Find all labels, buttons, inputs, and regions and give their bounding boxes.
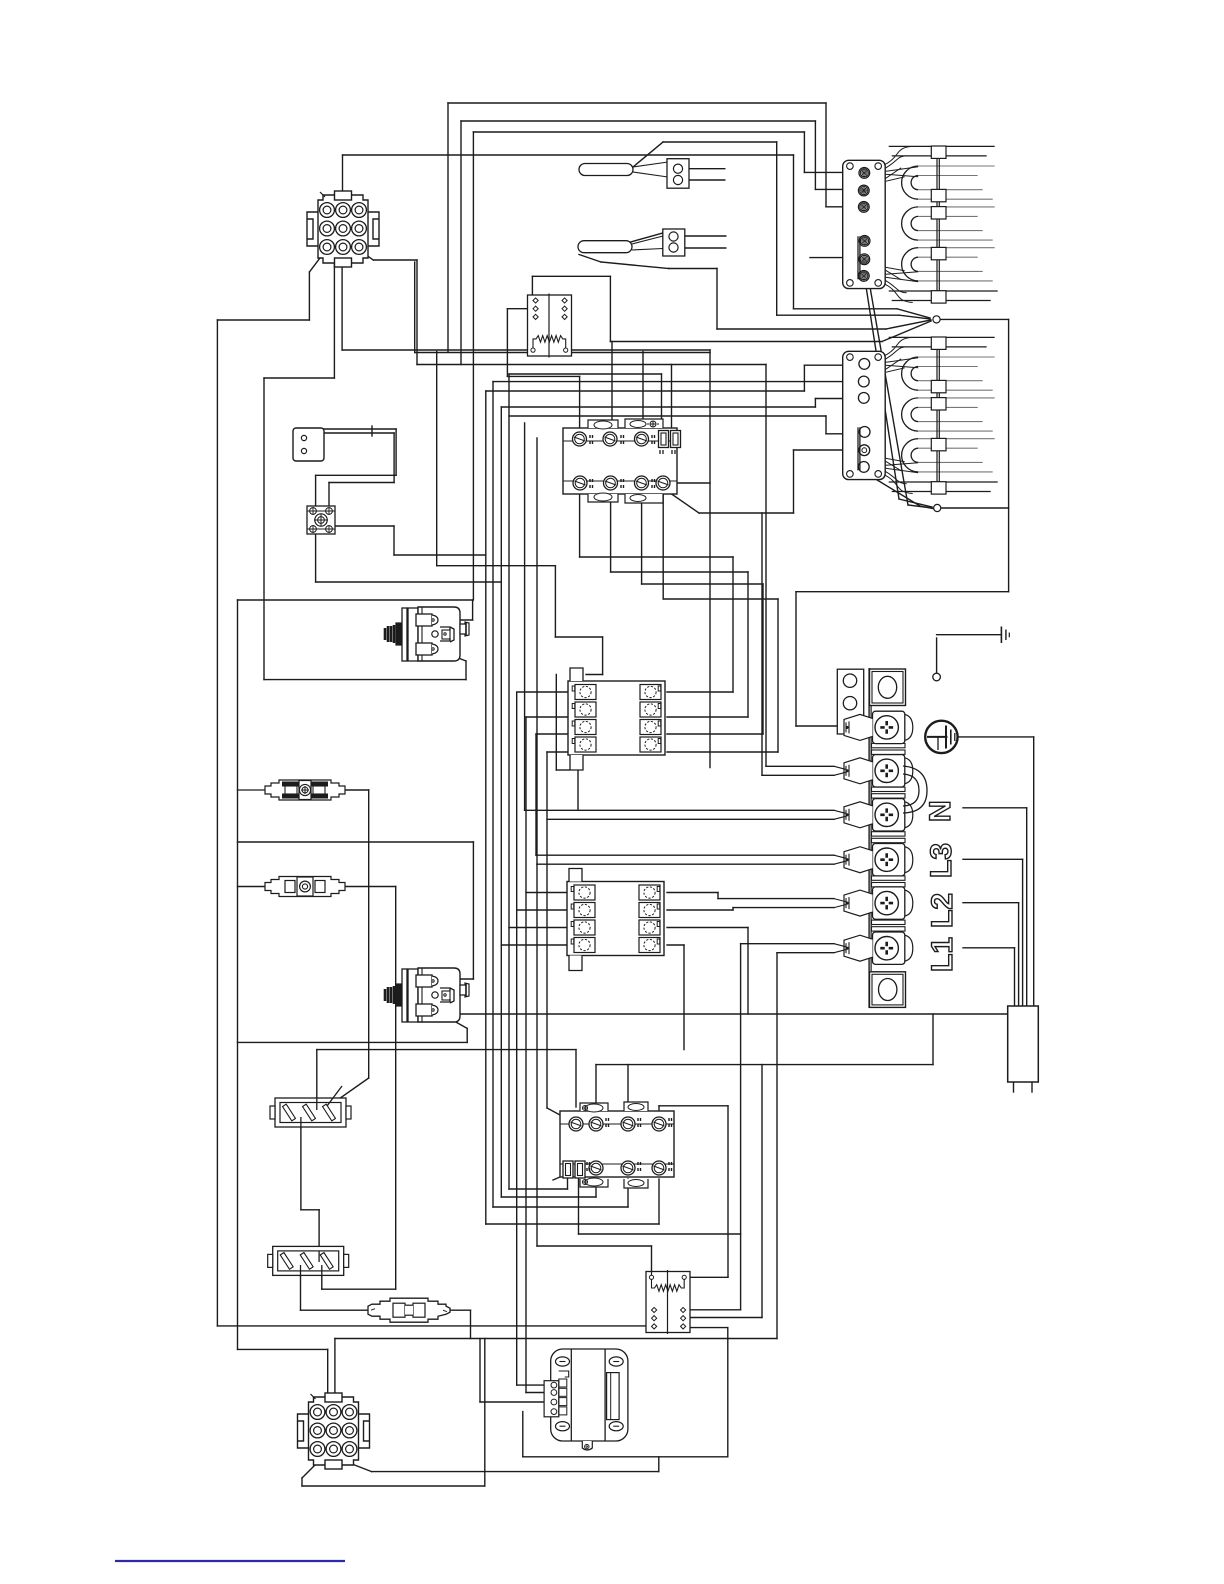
wire	[535, 734, 537, 855]
wire	[747, 572, 749, 717]
wire	[1013, 1082, 1015, 1092]
wire	[509, 415, 826, 417]
wire stubs into plug P4	[318, 1251, 320, 1262]
wire	[524, 423, 526, 810]
wire	[642, 583, 763, 585]
wire	[322, 1288, 396, 1290]
wire	[732, 557, 734, 692]
chassis ground stub	[1000, 627, 1002, 644]
wire	[438, 978, 473, 980]
screw terminal L3	[873, 799, 905, 831]
wire	[899, 499, 932, 507]
earth ground symbol	[925, 721, 957, 753]
wire	[352, 1464, 372, 1472]
wire	[669, 268, 717, 270]
wire	[509, 1188, 568, 1190]
wire	[899, 315, 930, 319]
door switch S1	[293, 428, 324, 461]
wire	[466, 1028, 468, 1042]
wire	[470, 1310, 472, 1338]
wire	[795, 592, 797, 726]
wire	[651, 1246, 653, 1272]
wire	[691, 1309, 741, 1311]
wire	[316, 581, 502, 583]
wire	[936, 638, 938, 673]
wire	[897, 309, 930, 318]
wire	[717, 328, 886, 330]
wire	[217, 319, 309, 321]
wire	[472, 600, 474, 620]
wire	[447, 103, 449, 352]
wire	[486, 1223, 659, 1225]
wire	[765, 365, 767, 767]
wire	[865, 280, 899, 499]
wire	[342, 155, 344, 195]
wire	[525, 809, 834, 811]
wire	[595, 1065, 597, 1124]
wire	[525, 717, 527, 1393]
wire	[301, 1309, 371, 1311]
wire	[762, 774, 834, 776]
broil element assembly E1	[843, 146, 998, 303]
wire	[264, 377, 334, 379]
wire	[727, 1106, 729, 1278]
wire	[315, 475, 317, 506]
svg-text:L3: L3	[925, 843, 958, 878]
wire	[658, 1179, 660, 1224]
surface switch SW2	[560, 1102, 674, 1188]
wire	[372, 428, 396, 430]
wire	[777, 599, 779, 752]
wire	[667, 691, 733, 693]
wire	[501, 1196, 596, 1198]
wire	[301, 1478, 303, 1486]
wire	[547, 818, 834, 820]
spade tab	[872, 832, 906, 836]
wire	[761, 513, 763, 775]
wire	[1033, 737, 1035, 1006]
wire	[318, 1210, 320, 1259]
wire	[864, 472, 920, 506]
wire	[238, 886, 266, 888]
wire	[1008, 319, 1010, 591]
wire	[815, 398, 850, 400]
relay block K1	[528, 294, 572, 358]
wire	[601, 262, 669, 269]
wire	[658, 1457, 660, 1472]
wire	[963, 858, 1023, 860]
wire	[333, 258, 335, 378]
wire	[699, 512, 794, 514]
wire	[667, 733, 763, 735]
spade tab	[872, 876, 906, 880]
wire	[641, 494, 643, 584]
connector block J1	[667, 159, 689, 189]
wire	[1026, 808, 1028, 1006]
wire	[522, 1412, 524, 1457]
wire	[342, 349, 710, 351]
wire	[611, 342, 613, 440]
inline fuse F3	[368, 1298, 450, 1322]
wire	[324, 428, 372, 430]
screw terminal GND	[873, 711, 905, 743]
wire	[578, 1179, 580, 1234]
wire	[1014, 948, 1016, 1006]
wire	[579, 376, 581, 439]
wire	[341, 258, 343, 350]
wire	[683, 945, 685, 1050]
wire	[886, 320, 931, 329]
oven sensor probe P1	[579, 164, 633, 176]
wire	[932, 1014, 934, 1065]
wire	[793, 450, 795, 513]
connector CN1 (9-pin)	[307, 191, 379, 267]
wire	[766, 765, 834, 767]
wire	[238, 789, 266, 791]
terminal board TB2	[568, 668, 665, 770]
wire	[718, 898, 834, 900]
wire	[658, 1106, 660, 1124]
wire	[532, 275, 610, 277]
wire	[506, 309, 508, 377]
wire	[794, 308, 898, 310]
wire	[691, 1317, 762, 1319]
thermostat TH1	[385, 607, 469, 661]
wire	[671, 365, 673, 429]
wire	[667, 909, 733, 911]
wire	[825, 416, 827, 434]
wire	[866, 264, 908, 505]
wire	[335, 525, 394, 527]
wire	[627, 233, 663, 243]
svg-text:L1: L1	[926, 937, 959, 972]
wire	[509, 927, 569, 929]
wire	[526, 892, 569, 894]
wire	[308, 272, 310, 320]
wire	[327, 1349, 329, 1397]
wire	[814, 121, 816, 189]
wire	[668, 482, 710, 484]
wire	[747, 928, 749, 1015]
wire	[263, 378, 265, 680]
wire	[908, 505, 932, 508]
plug block P4	[268, 1246, 349, 1275]
wire	[486, 390, 805, 392]
wire	[596, 1064, 933, 1066]
wire	[480, 1401, 550, 1403]
wire	[567, 1179, 569, 1189]
wire	[941, 507, 1009, 509]
wire	[501, 944, 569, 946]
wire	[509, 373, 662, 375]
terminal strip plate	[868, 668, 870, 1008]
wire	[546, 752, 548, 1050]
wire	[920, 506, 933, 509]
wire	[882, 321, 931, 342]
wire	[796, 591, 1009, 593]
wire	[537, 1245, 652, 1247]
surface switch SW1	[563, 419, 681, 503]
wire	[682, 247, 725, 249]
wire	[661, 374, 663, 428]
open terminal	[933, 673, 941, 681]
wire	[507, 308, 529, 310]
wire	[479, 1339, 481, 1403]
wire	[815, 188, 858, 190]
wire	[689, 1276, 728, 1278]
wire	[555, 675, 557, 771]
wire	[536, 733, 572, 735]
wire	[393, 526, 395, 555]
spade tab	[872, 920, 906, 924]
wire	[372, 432, 394, 434]
wire	[611, 571, 748, 573]
wire	[472, 132, 474, 600]
wire	[516, 692, 518, 1385]
wire	[579, 255, 601, 263]
wire	[804, 171, 858, 173]
thermostat TH2	[385, 968, 469, 1022]
wire	[577, 770, 579, 810]
wire	[958, 736, 1034, 738]
wire	[345, 886, 396, 888]
wire	[1018, 903, 1020, 1006]
wire	[794, 449, 859, 451]
wire	[579, 494, 581, 557]
wire	[300, 1268, 302, 1311]
wire	[555, 636, 602, 638]
transformer T1	[544, 1349, 628, 1450]
oven lamp DS1	[307, 506, 335, 534]
wire	[682, 235, 725, 237]
wire	[586, 674, 603, 676]
wire	[508, 374, 510, 1189]
wire	[359, 250, 373, 260]
wire	[329, 482, 394, 484]
screw terminal L1	[873, 887, 905, 919]
wire	[216, 320, 218, 1326]
wire	[493, 1206, 628, 1208]
wire	[963, 947, 1015, 949]
wire	[395, 429, 397, 475]
wire	[217, 1325, 649, 1327]
wire	[716, 269, 718, 330]
wire	[796, 725, 845, 727]
wire	[667, 944, 684, 946]
wire	[556, 769, 569, 771]
wire	[963, 807, 1027, 809]
wire	[345, 789, 369, 791]
wire	[777, 314, 899, 316]
wire	[395, 887, 397, 1290]
oven sensor probe P2	[578, 241, 632, 253]
wire	[493, 381, 850, 383]
wire	[627, 1065, 629, 1124]
wire	[546, 1050, 548, 1108]
wire	[238, 841, 474, 843]
wire	[415, 352, 710, 354]
wire	[580, 556, 733, 558]
wire	[526, 1392, 550, 1394]
wire	[465, 661, 467, 680]
wire	[485, 391, 487, 1224]
wire	[662, 494, 664, 599]
svg-text:N: N	[924, 800, 957, 822]
wire	[301, 1209, 319, 1211]
wire	[610, 494, 612, 572]
merge node B	[934, 504, 941, 511]
wire	[776, 142, 778, 315]
wire	[315, 534, 317, 582]
wire	[437, 565, 556, 567]
wire	[523, 1456, 728, 1458]
wire stub into relay K2	[651, 1272, 653, 1276]
wire	[1031, 1082, 1033, 1092]
screw terminal N	[873, 755, 905, 787]
wire	[526, 716, 572, 718]
wire	[717, 893, 719, 899]
wire	[667, 927, 748, 929]
wire	[554, 566, 556, 637]
wire	[328, 483, 330, 507]
N jumper	[903, 766, 927, 813]
wire	[575, 1050, 577, 1107]
wire stubs into plug P3	[316, 1098, 318, 1110]
wire	[536, 864, 538, 1246]
wire	[667, 716, 748, 718]
wire	[264, 679, 466, 681]
wire	[740, 944, 742, 1310]
wire	[368, 790, 370, 1078]
wire	[667, 751, 778, 753]
wire	[547, 751, 572, 753]
wire	[321, 1268, 323, 1290]
wire	[238, 1041, 468, 1043]
connector CN2 (9-pin)	[298, 1393, 370, 1469]
wire	[317, 1049, 576, 1051]
wire	[826, 206, 858, 208]
wire	[633, 142, 663, 167]
wire	[610, 341, 882, 343]
wire	[826, 433, 850, 435]
wire	[691, 1327, 728, 1329]
bake element assembly E2	[843, 337, 998, 494]
wire	[1022, 859, 1024, 1006]
wire	[501, 406, 815, 408]
wire	[517, 909, 569, 911]
wire	[761, 1065, 763, 1318]
wire	[793, 155, 795, 309]
wire	[472, 842, 474, 979]
wire	[448, 1309, 471, 1311]
thermal fuse F1	[262, 780, 348, 800]
wire	[448, 102, 826, 104]
wire	[473, 131, 804, 133]
wire	[438, 1012, 467, 1028]
wire	[335, 1338, 777, 1340]
wire	[804, 364, 850, 366]
wire	[438, 1013, 1034, 1015]
wire	[553, 1170, 576, 1180]
wire	[963, 902, 1019, 904]
terminal board TB3	[567, 869, 664, 971]
relay block K2	[646, 1270, 690, 1334]
wire	[689, 179, 725, 181]
wire	[316, 1050, 318, 1108]
wire	[803, 132, 805, 172]
svg-text:L2: L2	[926, 893, 959, 928]
wire	[609, 276, 611, 341]
wire	[777, 952, 834, 954]
thermal fuse F2	[262, 877, 348, 897]
wire	[940, 318, 1009, 320]
wire	[602, 637, 604, 675]
wire	[324, 432, 372, 434]
wire	[689, 168, 725, 170]
wire	[627, 1179, 629, 1207]
wire	[373, 259, 417, 261]
strip mounting bracket	[837, 669, 863, 734]
wire	[302, 1485, 485, 1487]
wire	[579, 1233, 741, 1235]
wire	[709, 350, 711, 768]
wire	[536, 854, 834, 856]
wire	[302, 1464, 316, 1478]
plug block P3	[270, 1098, 351, 1127]
wire	[492, 382, 494, 1207]
wire	[309, 250, 326, 272]
screw terminal L2	[873, 844, 905, 876]
wire	[484, 1339, 486, 1487]
wire	[810, 257, 858, 259]
wire	[536, 438, 538, 864]
wire	[394, 554, 486, 556]
wire	[461, 120, 815, 122]
wire	[460, 121, 462, 365]
wire	[595, 1179, 597, 1197]
wire	[537, 863, 834, 865]
screw terminal X	[873, 932, 905, 964]
wire	[372, 1471, 659, 1473]
wire	[414, 262, 416, 353]
wire	[371, 426, 373, 436]
wire	[300, 1119, 302, 1210]
connector block J2	[663, 229, 685, 256]
wire	[326, 1108, 329, 1110]
wire	[663, 598, 778, 600]
wire	[237, 600, 239, 1349]
wire	[393, 433, 395, 483]
wire	[438, 650, 466, 661]
wire	[326, 1078, 369, 1108]
wire	[937, 634, 1002, 636]
wire	[741, 943, 834, 945]
wire	[417, 364, 766, 366]
wire	[517, 1384, 550, 1386]
wire	[776, 953, 778, 1339]
wire	[642, 352, 644, 440]
wire	[507, 375, 579, 377]
wire	[727, 1328, 729, 1457]
wire	[416, 260, 418, 365]
wire	[438, 619, 473, 621]
wire	[667, 892, 718, 894]
wire	[825, 103, 827, 207]
wire	[659, 1105, 728, 1107]
wire	[238, 1348, 328, 1350]
merge node A	[933, 316, 940, 323]
wire	[436, 352, 438, 566]
